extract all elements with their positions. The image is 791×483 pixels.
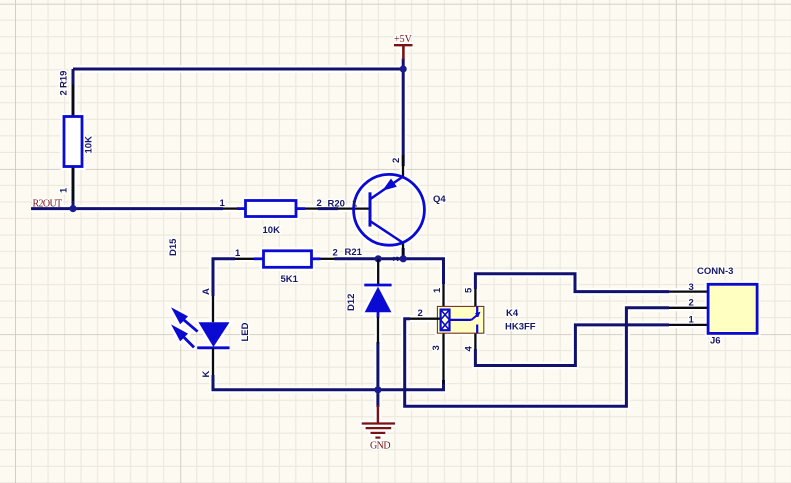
svg-text:LED: LED [240, 322, 251, 341]
svg-text:R21: R21 [345, 247, 363, 258]
svg-text:GND: GND [370, 441, 390, 452]
svg-text:1: 1 [59, 187, 70, 193]
led D15 [212, 296, 214, 322]
resistor R21 [235, 258, 256, 260]
svg-text:J6: J6 [710, 336, 721, 347]
junction node D12 top [375, 255, 382, 262]
svg-text:2: 2 [391, 158, 402, 163]
svg-text:1: 1 [220, 198, 226, 209]
ground symbol [377, 405, 379, 424]
svg-text:10K: 10K [84, 136, 95, 154]
relay K4 [442, 284, 444, 306]
resistor R20 [223, 207, 239, 209]
svg-text:A: A [201, 288, 212, 295]
diode D12 [377, 259, 379, 285]
wire relay pin4 to conn pin1 [475, 325, 669, 366]
svg-text:+5V: +5V [394, 34, 413, 45]
wire junction to GND [376, 390, 379, 407]
wire D12 bottom [376, 342, 379, 390]
junction node R2OUT [69, 205, 76, 212]
svg-text:HK3FF: HK3FF [505, 322, 536, 333]
wire left rail [72, 69, 75, 209]
resistor R19 [72, 85, 74, 118]
svg-text:D15: D15 [168, 238, 179, 256]
svg-text:5K1: 5K1 [281, 274, 299, 285]
white halo underlay [31, 34, 761, 452]
svg-text:2: 2 [689, 298, 694, 309]
wire R21 left to LED anode [213, 259, 235, 296]
wire relay pin2 to conn pin2 [405, 308, 669, 407]
svg-text:K4: K4 [506, 308, 519, 319]
svg-text:1: 1 [235, 248, 241, 259]
wire R20 to Q4 base [318, 207, 338, 210]
wire Q4 collector down [402, 248, 405, 259]
svg-text:2: 2 [418, 308, 423, 319]
wire R21 row to relay pin1 [335, 259, 444, 284]
wire relay pin5 to conn pin3 [475, 274, 669, 292]
svg-text:5: 5 [464, 287, 475, 293]
svg-text:2: 2 [317, 198, 322, 209]
connector J6 [669, 290, 708, 292]
svg-text:Q4: Q4 [433, 194, 446, 205]
power port +5V [394, 44, 413, 46]
svg-text:2: 2 [59, 90, 70, 95]
svg-text:3: 3 [431, 345, 442, 350]
wire R2OUT to R20 [31, 207, 223, 210]
svg-text:4: 4 [464, 346, 475, 352]
svg-text:D12: D12 [346, 294, 357, 311]
svg-text:1: 1 [432, 287, 443, 293]
svg-text:CONN-3: CONN-3 [697, 266, 733, 277]
svg-text:1: 1 [689, 315, 695, 326]
svg-text:1: 1 [352, 199, 358, 210]
wire +5V rail [73, 68, 403, 71]
svg-text:2: 2 [333, 248, 338, 259]
svg-text:10K: 10K [263, 225, 281, 236]
junction node Q4 collector [400, 255, 407, 262]
transistor Q4 [338, 207, 369, 209]
junction node +5V rail [400, 65, 407, 72]
wire LED cathode to bottom rail [213, 375, 444, 390]
svg-text:R2OUT: R2OUT [33, 199, 63, 210]
wire +5V stem to Q4 [402, 59, 405, 167]
svg-text:K: K [201, 371, 212, 378]
junction node D12 bottom [374, 386, 381, 393]
svg-text:3: 3 [689, 282, 694, 293]
svg-text:R19: R19 [59, 71, 70, 88]
